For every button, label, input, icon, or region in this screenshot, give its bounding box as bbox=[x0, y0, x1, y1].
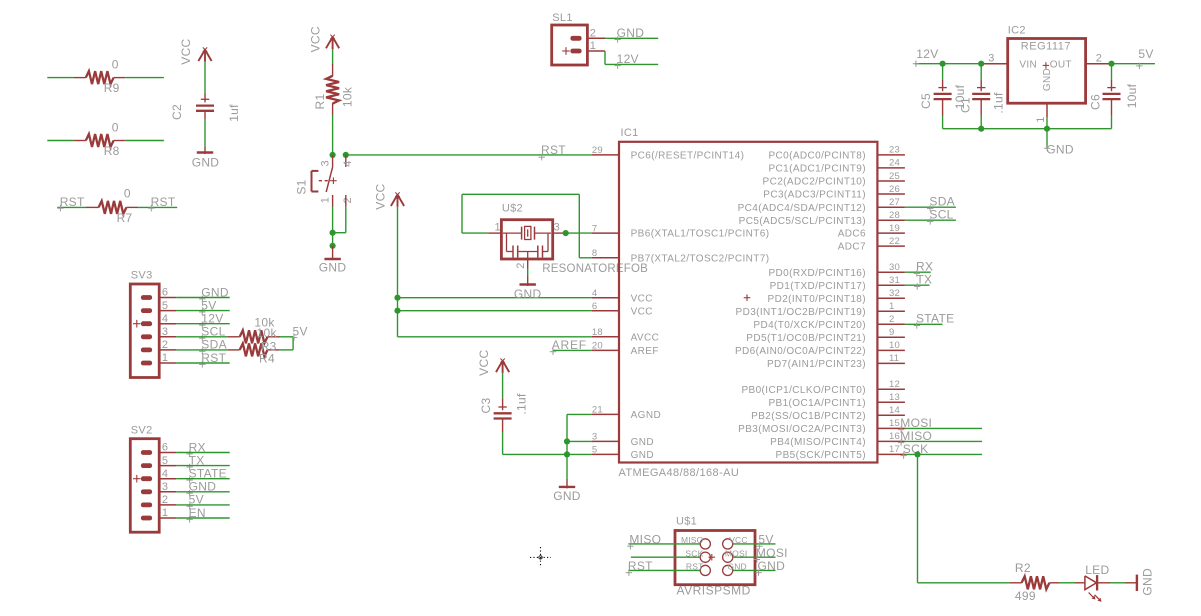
svg-text:R9: R9 bbox=[104, 81, 120, 95]
svg-text:PD4(T0/XCK/PCINT20): PD4(T0/XCK/PCINT20) bbox=[753, 320, 866, 331]
svg-text:SV3: SV3 bbox=[131, 270, 153, 282]
svg-text:PB1(OC1A/PCINT1): PB1(OC1A/PCINT1) bbox=[768, 398, 866, 409]
svg-text:VCC: VCC bbox=[179, 38, 193, 64]
svg-text:9: 9 bbox=[889, 327, 894, 338]
svg-text:GND: GND bbox=[1141, 568, 1155, 596]
svg-text:GND: GND bbox=[758, 559, 786, 573]
svg-text:PB6(XTAL1/TOSC1/PCINT6): PB6(XTAL1/TOSC1/PCINT6) bbox=[631, 229, 770, 240]
svg-text:GND: GND bbox=[631, 437, 654, 448]
svg-text:TX: TX bbox=[916, 273, 932, 287]
svg-text:.1uf: .1uf bbox=[515, 393, 529, 415]
svg-text:6: 6 bbox=[592, 301, 597, 312]
svg-text:PC0(ADC0/PCINT8): PC0(ADC0/PCINT8) bbox=[768, 151, 866, 162]
svg-text:31: 31 bbox=[889, 275, 900, 286]
svg-text:VCC: VCC bbox=[631, 293, 653, 304]
svg-text:4: 4 bbox=[162, 313, 168, 325]
svg-text:R2: R2 bbox=[1015, 561, 1031, 575]
svg-text:C1: C1 bbox=[959, 97, 973, 113]
svg-text:24: 24 bbox=[889, 158, 900, 169]
svg-text:PC1(ADC1/PCINT9): PC1(ADC1/PCINT9) bbox=[768, 164, 866, 175]
svg-text:1: 1 bbox=[495, 221, 501, 233]
svg-text:SCL: SCL bbox=[929, 208, 953, 222]
svg-text:AGND: AGND bbox=[631, 410, 662, 421]
svg-text:ADC6: ADC6 bbox=[838, 229, 866, 240]
svg-text:PC3(ADC3/PCINT11): PC3(ADC3/PCINT11) bbox=[763, 190, 866, 201]
svg-text:10uf: 10uf bbox=[1125, 83, 1139, 108]
svg-text:1: 1 bbox=[1035, 116, 1047, 122]
svg-text:AREF: AREF bbox=[552, 338, 587, 352]
svg-text:1: 1 bbox=[162, 352, 168, 364]
svg-text:ADC7: ADC7 bbox=[838, 242, 866, 253]
svg-text:SV2: SV2 bbox=[131, 424, 153, 436]
svg-text:2: 2 bbox=[515, 262, 527, 268]
svg-text:10: 10 bbox=[889, 340, 900, 351]
svg-text:26: 26 bbox=[889, 184, 900, 195]
svg-text:PD0(RXD/PCINT16): PD0(RXD/PCINT16) bbox=[768, 268, 866, 279]
svg-text:PD7(AIN1/PCINT23): PD7(AIN1/PCINT23) bbox=[767, 359, 866, 370]
svg-text:U$1: U$1 bbox=[676, 516, 697, 528]
svg-text:28: 28 bbox=[889, 210, 900, 221]
svg-text:PC5(ADC5/SCL/PCINT13): PC5(ADC5/SCL/PCINT13) bbox=[739, 216, 866, 227]
svg-text:PB2(SS/OC1B/PCINT2): PB2(SS/OC1B/PCINT2) bbox=[751, 411, 866, 422]
svg-text:499: 499 bbox=[1015, 589, 1036, 603]
svg-text:GND: GND bbox=[1046, 143, 1074, 157]
svg-text:5: 5 bbox=[162, 455, 168, 467]
svg-text:R8: R8 bbox=[104, 144, 120, 158]
svg-text:12V: 12V bbox=[916, 47, 938, 61]
svg-text:1: 1 bbox=[889, 301, 894, 312]
svg-text:7: 7 bbox=[592, 223, 597, 234]
svg-text:OUT: OUT bbox=[1050, 59, 1072, 70]
svg-text:U$2: U$2 bbox=[502, 202, 523, 214]
svg-text:AVRISPSMD: AVRISPSMD bbox=[677, 584, 751, 598]
svg-text:22: 22 bbox=[889, 236, 900, 247]
svg-text:LED: LED bbox=[1085, 563, 1109, 577]
svg-text:2: 2 bbox=[162, 494, 168, 506]
svg-text:PD6(AIN0/OC0A/PCINT22): PD6(AIN0/OC0A/PCINT22) bbox=[735, 346, 866, 357]
svg-text:14: 14 bbox=[889, 405, 900, 416]
svg-text:2: 2 bbox=[162, 339, 168, 351]
svg-text:GND: GND bbox=[514, 287, 542, 301]
svg-text:0: 0 bbox=[124, 187, 131, 201]
svg-text:32: 32 bbox=[889, 288, 900, 299]
svg-text:1uf: 1uf bbox=[227, 104, 241, 122]
svg-text:MISO: MISO bbox=[900, 429, 932, 443]
svg-text:8: 8 bbox=[592, 248, 597, 259]
svg-text:25: 25 bbox=[889, 171, 900, 182]
svg-text:VCC: VCC bbox=[374, 183, 388, 209]
svg-text:SL1: SL1 bbox=[552, 12, 572, 24]
svg-text:20: 20 bbox=[592, 341, 603, 352]
svg-text:6: 6 bbox=[162, 442, 168, 454]
svg-text:PC4(ADC4/SDA/PCINT12): PC4(ADC4/SDA/PCINT12) bbox=[738, 203, 866, 214]
svg-text:PC6(/RESET/PCINT14): PC6(/RESET/PCINT14) bbox=[631, 151, 745, 162]
svg-text:IC2: IC2 bbox=[1008, 25, 1026, 37]
svg-text:6: 6 bbox=[162, 287, 168, 299]
svg-text:RST: RST bbox=[628, 559, 653, 573]
svg-text:5V: 5V bbox=[758, 533, 773, 547]
svg-text:RST: RST bbox=[60, 195, 85, 209]
svg-text:1: 1 bbox=[162, 507, 168, 519]
svg-text:21: 21 bbox=[592, 405, 603, 416]
svg-text:18: 18 bbox=[592, 327, 603, 338]
svg-text:0: 0 bbox=[112, 58, 119, 72]
svg-text:PD5(T1/OC0B/PCINT21): PD5(T1/OC0B/PCINT21) bbox=[746, 333, 866, 344]
svg-text:5: 5 bbox=[162, 300, 168, 312]
svg-text:VCC: VCC bbox=[631, 306, 653, 317]
svg-text:3: 3 bbox=[320, 160, 332, 166]
svg-text:PD3(INT1/OC2B/PCINT19): PD3(INT1/OC2B/PCINT19) bbox=[736, 307, 867, 318]
svg-text:30: 30 bbox=[889, 262, 900, 273]
svg-text:R1: R1 bbox=[313, 94, 327, 110]
svg-text:4: 4 bbox=[592, 288, 597, 299]
svg-text:C6: C6 bbox=[1089, 94, 1103, 110]
svg-text:5: 5 bbox=[592, 445, 597, 456]
svg-text:2: 2 bbox=[342, 197, 354, 203]
svg-text:GND: GND bbox=[631, 450, 654, 461]
svg-text:GND: GND bbox=[553, 489, 581, 503]
svg-text:PB7(XTAL2/TOSC2/PCINT7): PB7(XTAL2/TOSC2/PCINT7) bbox=[631, 253, 770, 264]
svg-text:12: 12 bbox=[889, 379, 900, 390]
svg-text:3: 3 bbox=[162, 326, 168, 338]
svg-text:3: 3 bbox=[554, 221, 560, 233]
svg-text:3: 3 bbox=[162, 481, 168, 493]
svg-text:29: 29 bbox=[592, 145, 603, 156]
svg-text:13: 13 bbox=[889, 392, 900, 403]
svg-text:17: 17 bbox=[889, 444, 900, 455]
svg-text:0: 0 bbox=[112, 121, 119, 135]
svg-text:23: 23 bbox=[889, 145, 900, 156]
svg-text:PB3(MOSI/OC2A/PCINT3): PB3(MOSI/OC2A/PCINT3) bbox=[738, 424, 866, 435]
svg-text:16: 16 bbox=[889, 431, 900, 442]
svg-text:VCC: VCC bbox=[309, 26, 323, 52]
svg-text:C3: C3 bbox=[479, 398, 493, 414]
svg-text:MOSI: MOSI bbox=[900, 416, 932, 430]
svg-text:2: 2 bbox=[889, 314, 894, 325]
svg-text:GND: GND bbox=[192, 156, 220, 170]
svg-text:.1uf: .1uf bbox=[992, 92, 1006, 114]
svg-text:PD2(INT0/PCINT18): PD2(INT0/PCINT18) bbox=[768, 294, 867, 305]
svg-text:RX: RX bbox=[916, 260, 933, 274]
svg-text:GND: GND bbox=[319, 261, 347, 275]
svg-text:GND: GND bbox=[617, 26, 645, 40]
svg-text:VIN: VIN bbox=[1019, 59, 1037, 70]
svg-text:11: 11 bbox=[889, 353, 899, 364]
svg-text:PC2(ADC2/PCINT10): PC2(ADC2/PCINT10) bbox=[763, 177, 867, 188]
svg-text:REG1117: REG1117 bbox=[1021, 41, 1071, 53]
svg-text:STATE: STATE bbox=[916, 312, 954, 326]
svg-text:VCC: VCC bbox=[477, 350, 491, 376]
svg-text:3: 3 bbox=[592, 432, 597, 443]
svg-text:19: 19 bbox=[889, 223, 900, 234]
svg-text:15: 15 bbox=[889, 418, 900, 429]
svg-text:RST: RST bbox=[541, 143, 566, 157]
svg-text:4: 4 bbox=[162, 468, 168, 480]
svg-text:ATMEGA48/88/168-AU: ATMEGA48/88/168-AU bbox=[619, 467, 740, 479]
svg-text:MISO: MISO bbox=[629, 533, 661, 547]
svg-text:12V: 12V bbox=[617, 52, 639, 66]
svg-text:1: 1 bbox=[320, 197, 332, 203]
svg-text:C5: C5 bbox=[919, 93, 933, 109]
svg-text:2: 2 bbox=[1096, 53, 1102, 65]
svg-text:C2: C2 bbox=[170, 104, 184, 120]
svg-text:RST: RST bbox=[151, 195, 176, 209]
svg-text:3: 3 bbox=[988, 53, 994, 65]
svg-text:GND: GND bbox=[1042, 68, 1053, 91]
svg-text:IC1: IC1 bbox=[621, 127, 639, 139]
svg-text:R4: R4 bbox=[259, 352, 275, 366]
svg-text:AREF: AREF bbox=[631, 346, 659, 357]
svg-text:4: 4 bbox=[342, 160, 354, 166]
svg-text:SDA: SDA bbox=[929, 195, 955, 209]
svg-text:2: 2 bbox=[590, 27, 596, 39]
svg-text:R7: R7 bbox=[117, 211, 133, 225]
svg-text:1: 1 bbox=[590, 40, 596, 52]
svg-text:PD1(TXD/PCINT17): PD1(TXD/PCINT17) bbox=[770, 281, 866, 292]
svg-text:MOSI: MOSI bbox=[756, 546, 788, 560]
svg-text:PB0(ICP1/CLKO/PCINT0): PB0(ICP1/CLKO/PCINT0) bbox=[741, 385, 866, 396]
svg-text:5V: 5V bbox=[293, 324, 308, 338]
svg-text:PB4(MISO/PCINT4): PB4(MISO/PCINT4) bbox=[770, 437, 866, 448]
svg-text:S1: S1 bbox=[295, 179, 309, 194]
svg-text:5V: 5V bbox=[1138, 47, 1153, 61]
svg-text:PB5(SCK/PCINT5): PB5(SCK/PCINT5) bbox=[776, 450, 866, 461]
svg-text:RESONATOREFOB: RESONATOREFOB bbox=[542, 263, 648, 275]
svg-text:27: 27 bbox=[889, 197, 900, 208]
svg-text:10k: 10k bbox=[257, 326, 278, 340]
svg-text:AVCC: AVCC bbox=[631, 332, 660, 343]
svg-text:10k: 10k bbox=[340, 86, 354, 107]
